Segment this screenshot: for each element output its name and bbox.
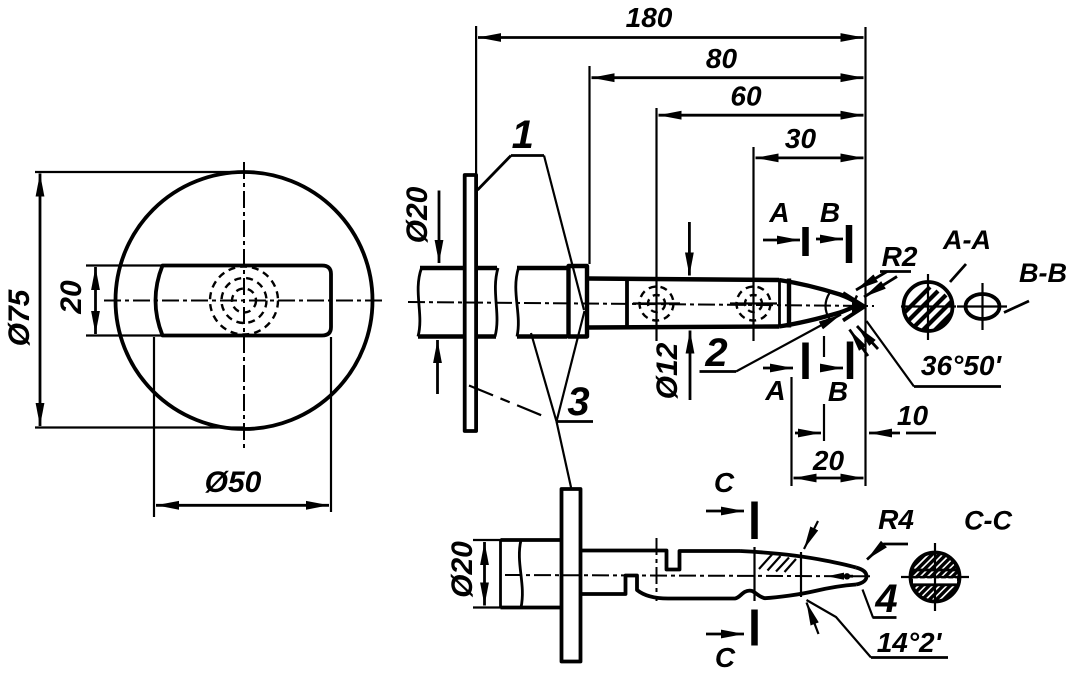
svg-text:2: 2 <box>704 331 727 375</box>
hole crosshair 1 <box>633 287 680 321</box>
B-B leader <box>1004 301 1029 313</box>
section B lower tick <box>847 342 854 380</box>
item 3 leader from collar <box>557 311 585 422</box>
nose cap arc <box>856 568 867 585</box>
C-C flat white band <box>913 578 957 584</box>
svg-text:180: 180 <box>626 2 673 33</box>
shaft stub after flange bottom edge <box>476 334 496 338</box>
lower tip arrow 2 <box>850 330 869 357</box>
svg-text:C-C: C-C <box>964 506 1012 536</box>
shaft segment B bottom edge <box>517 334 567 338</box>
Ø12 shaft top edge <box>589 279 780 281</box>
flange plate (bottom view) <box>562 489 581 662</box>
section C lower tick <box>751 610 758 646</box>
section C upper tick <box>751 502 758 540</box>
svg-text:B: B <box>828 376 848 407</box>
svg-text:R4: R4 <box>878 504 914 535</box>
angle arrow upper <box>804 521 818 549</box>
item 3 leader from segment B <box>531 333 557 422</box>
item 4 leader <box>863 590 874 618</box>
shaft segment left bottom edge <box>418 334 465 338</box>
dim 10 left arrow <box>795 432 821 435</box>
flange disc Ø75 (front view) <box>116 172 373 429</box>
dim 60 extension line <box>655 108 657 341</box>
section C lower arrow <box>706 633 744 636</box>
hidden holes (nested dashed circles) <box>232 289 256 313</box>
hidden arc at cone base <box>826 293 830 319</box>
shaft break arc <box>519 540 522 608</box>
break line of stub <box>495 268 498 337</box>
lower tip arrow 1 <box>857 326 878 349</box>
A-A circle <box>904 282 953 331</box>
svg-text:80: 80 <box>706 43 738 74</box>
section C upper arrow <box>706 510 744 513</box>
36°50' underline <box>914 385 1001 388</box>
C-C section trace <box>753 547 755 601</box>
shaft joint line <box>625 278 629 328</box>
shaft segment B top edge <box>517 266 567 270</box>
item 1 underline <box>511 154 544 157</box>
shaft stub after flange top edge <box>476 266 497 270</box>
B-B ellipse <box>966 294 1000 319</box>
dim Ø12 bottom arrow <box>689 331 692 401</box>
dim 10 right arrow <box>869 432 936 435</box>
R4 center mark arrow <box>827 573 844 580</box>
C-C circle <box>911 553 960 602</box>
dim 80 dimension line <box>592 76 864 79</box>
nose top curve <box>740 551 856 568</box>
shaft left end <box>499 540 502 608</box>
horizontal center line <box>104 300 384 302</box>
svg-text:Ø75: Ø75 <box>3 288 36 346</box>
center line bottom view <box>505 575 872 576</box>
item 2 underline <box>700 370 737 373</box>
item 1 leader to flange <box>478 156 512 191</box>
R2 arrow 1 <box>856 272 887 291</box>
item 3 leader to bottom flange <box>557 422 572 490</box>
dim 60 dimension line <box>659 114 864 117</box>
section B upper arrow <box>816 238 843 241</box>
dim 80 extension line <box>588 66 590 264</box>
R4 leader <box>867 544 908 560</box>
tip point blob <box>852 300 865 314</box>
tip cone upper flank <box>843 293 865 307</box>
svg-text:A: A <box>764 375 785 406</box>
nose joint line 2 <box>787 279 791 328</box>
dim extension line at tip <box>864 27 866 486</box>
svg-text:Ø12: Ø12 <box>651 342 684 399</box>
item 3 dash leader from flange plate <box>469 386 548 419</box>
section B upper tick <box>846 225 853 263</box>
svg-text:1: 1 <box>512 113 534 157</box>
B-B center cross <box>957 305 1007 307</box>
dim Ø20 bottom dimension line <box>483 542 486 606</box>
36°50' leader <box>867 321 915 387</box>
dim Ø50 extension lines <box>153 337 155 517</box>
slot through disc <box>156 266 332 336</box>
item 1 leader to collar <box>544 156 584 311</box>
shaft (bottom view) top edge <box>501 538 562 542</box>
vertical center line <box>243 162 245 448</box>
svg-text:C: C <box>715 642 736 673</box>
svg-text:Ø20: Ø20 <box>446 541 479 598</box>
C-C center cross <box>901 576 969 578</box>
hatch marks on nose flat <box>759 555 796 573</box>
dim Ø20 bottom extension lines <box>473 539 502 541</box>
dim 20 extension lines <box>86 264 163 266</box>
dim 20 dimension line with arrows <box>94 267 97 334</box>
nose ogive bottom curve <box>779 306 855 327</box>
dim 180 extension line left (flange face) <box>475 26 477 175</box>
shaft segment left (Ø20) top edge <box>420 266 465 270</box>
item 4 underline <box>873 616 897 619</box>
dim Ø12 top arrow <box>688 222 691 276</box>
svg-text:4: 4 <box>874 577 897 621</box>
dim 10 extension tick <box>823 336 825 357</box>
svg-text:A: A <box>768 197 789 228</box>
body top edge with notch <box>581 551 741 570</box>
svg-text:Ø50: Ø50 <box>205 466 262 499</box>
section A lower arrow <box>763 367 793 370</box>
flange plate (side view) <box>465 175 476 431</box>
A-A center cross <box>901 305 956 307</box>
hole crosshair 2 <box>730 287 777 321</box>
svg-text:60: 60 <box>730 81 762 112</box>
C-C hatch <box>885 527 984 626</box>
dim 20 right dimension line <box>794 477 864 480</box>
item 2 leader <box>736 315 841 372</box>
svg-text:3: 3 <box>567 380 589 424</box>
svg-text:14°2': 14°2' <box>877 627 943 658</box>
shaft bottom edge <box>501 606 562 610</box>
shaft left break line <box>418 268 422 337</box>
dim Ø20 top arrow <box>438 191 441 264</box>
dashed arc near tip <box>854 296 857 318</box>
C-C flat chords <box>912 569 959 572</box>
14°2' leader <box>807 600 872 658</box>
dim Ø75 dimension line with arrows <box>39 174 42 427</box>
svg-text:10: 10 <box>897 400 929 431</box>
svg-text:20: 20 <box>812 445 845 476</box>
A-A leader <box>950 264 966 282</box>
svg-text:R2: R2 <box>882 241 918 272</box>
nose joint line 1 <box>778 279 781 327</box>
dim Ø50 dimension line with arrows <box>156 504 329 507</box>
dim 30 extension line <box>752 147 754 341</box>
dim 180 dimension line <box>478 36 864 39</box>
R4 center dot <box>844 573 850 579</box>
A-A hatch <box>895 287 964 352</box>
dim 20 right extension line <box>790 377 792 486</box>
nose ogive top curve <box>779 280 855 302</box>
svg-text:C: C <box>714 467 735 498</box>
14°2' underline <box>871 656 948 659</box>
dim 30 dimension line <box>756 156 864 159</box>
shaft segment B break line <box>516 268 519 337</box>
section A upper tick <box>802 227 809 256</box>
svg-text:A-A: A-A <box>942 225 991 255</box>
main center line <box>408 302 874 306</box>
svg-text:20: 20 <box>55 280 88 315</box>
angle measure line <box>800 552 802 597</box>
section B lower arrow <box>820 367 843 370</box>
body bottom edge with notch and grip wave <box>581 576 857 599</box>
R2 arrow 2 <box>864 277 897 298</box>
svg-text:30: 30 <box>785 123 817 154</box>
Ø12 shaft bottom edge <box>589 327 780 328</box>
dim Ø20 bottom arrow <box>436 340 439 394</box>
collar <box>569 266 588 337</box>
svg-text:B-B: B-B <box>1019 258 1067 288</box>
svg-text:B: B <box>820 197 840 228</box>
svg-text:Ø20: Ø20 <box>401 186 434 243</box>
hole axis line <box>656 538 658 601</box>
svg-text:36°50': 36°50' <box>921 350 1002 381</box>
tip cone lower flank <box>843 307 865 321</box>
dim Ø75 extension lines <box>35 171 248 173</box>
section A upper arrow <box>763 239 800 242</box>
item 3 underline <box>557 420 594 423</box>
R2 underline <box>880 270 911 273</box>
angle arrow lower <box>807 603 819 635</box>
section A lower tick <box>802 343 809 380</box>
